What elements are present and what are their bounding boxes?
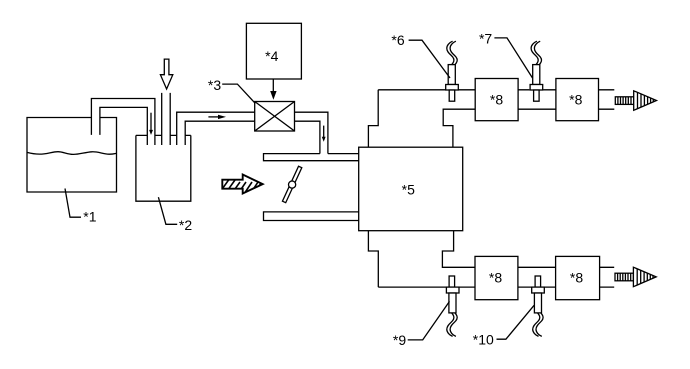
svg-text:*1: *1 <box>83 208 96 224</box>
svg-text:*3: *3 <box>208 77 221 93</box>
svg-text:*8: *8 <box>569 91 582 107</box>
svg-text:*2: *2 <box>179 217 192 233</box>
svg-text:*9: *9 <box>393 332 406 348</box>
svg-text:*5: *5 <box>402 181 415 197</box>
svg-text:*8: *8 <box>490 91 503 107</box>
svg-text:*6: *6 <box>391 32 404 48</box>
svg-text:*4: *4 <box>265 48 278 64</box>
svg-text:*8: *8 <box>489 270 502 286</box>
svg-text:*10: *10 <box>473 332 494 348</box>
svg-text:*7: *7 <box>479 30 492 46</box>
svg-text:*8: *8 <box>570 270 583 286</box>
